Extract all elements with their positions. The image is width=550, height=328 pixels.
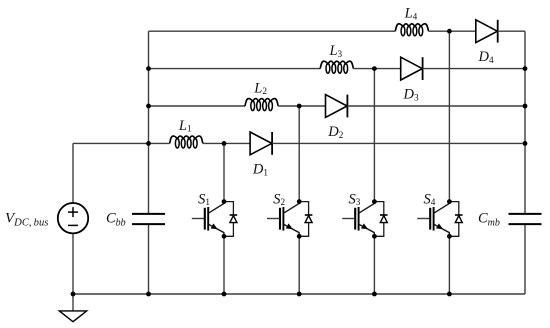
capacitor Cmb <box>509 213 542 215</box>
node collector <box>297 199 302 204</box>
wire antiparallel-diode branch <box>449 202 458 237</box>
node L2-D2-S2 <box>297 104 302 109</box>
wire L1 to D1 <box>203 142 250 144</box>
wire D1 to right rail <box>272 142 525 144</box>
antiparallel diode <box>455 214 463 216</box>
wire L2 to D2 <box>278 105 325 107</box>
node emitter <box>297 234 302 239</box>
node right rail row4 <box>523 141 528 146</box>
wire S2 lower leg <box>298 236 300 294</box>
wire emitter lead <box>208 224 224 236</box>
node emitter <box>372 234 377 239</box>
wire S1 lower leg <box>223 236 225 294</box>
node emitter <box>447 234 452 239</box>
node L4-D4-S4 <box>447 29 452 34</box>
inductor L4 <box>395 24 428 31</box>
diode D3 <box>401 57 423 80</box>
wire antiparallel-diode branch <box>299 202 308 237</box>
wire D4 to right rail <box>498 30 525 32</box>
node collector <box>447 199 452 204</box>
node emitter <box>222 234 227 239</box>
wire antiparallel-diode branch <box>224 202 233 237</box>
node L1-D1-S1 <box>222 141 227 146</box>
wire source top <box>72 143 74 202</box>
wire antiparallel-diode branch <box>374 202 383 237</box>
wire collector lead <box>359 202 375 214</box>
wire ground stem <box>72 294 74 311</box>
node bottom Cbb <box>146 292 151 297</box>
wire row L4 left <box>149 30 396 32</box>
wire collector lead <box>283 202 299 214</box>
antiparallel diode <box>230 214 238 216</box>
node collector <box>222 199 227 204</box>
inductor L2 <box>245 99 278 106</box>
inductor L3 <box>320 61 353 68</box>
gate bars <box>204 208 206 230</box>
node bottom S1 <box>222 292 227 297</box>
emitter arrow <box>361 223 368 229</box>
node bottom source <box>71 292 76 297</box>
inductor L1 <box>170 136 203 143</box>
wire S4 upper leg <box>448 31 450 201</box>
node left rail row2 <box>146 66 151 71</box>
wire S3 upper leg <box>373 69 375 202</box>
wire right rail <box>524 31 526 213</box>
capacitor Cbb <box>132 213 165 215</box>
antiparallel diode <box>305 214 313 216</box>
node right rail row3 <box>523 104 528 109</box>
wire L3 to D3 <box>353 68 400 70</box>
wire D2 to right rail <box>347 105 525 107</box>
emitter arrow <box>211 223 218 229</box>
voltage source VDC,bus <box>58 203 88 233</box>
wire gate lead <box>192 218 204 220</box>
wire D3 to right rail <box>423 68 525 70</box>
wire collector lead <box>434 202 450 214</box>
diode D2 <box>326 95 348 118</box>
gate bars <box>279 208 281 230</box>
node bottom S4 <box>447 292 452 297</box>
emitter arrow <box>436 223 443 229</box>
wire gate lead <box>267 218 279 220</box>
node bottom S3 <box>372 292 377 297</box>
wire gate lead <box>342 218 354 220</box>
wire source bottom <box>72 234 74 294</box>
wire emitter lead <box>434 224 450 236</box>
diode D4 <box>476 20 498 43</box>
wire row L2 left <box>149 105 246 107</box>
node L3-D3-S3 <box>372 66 377 71</box>
wire bottom rail <box>73 293 525 295</box>
gate bars <box>354 208 356 230</box>
node bottom S2 <box>297 292 302 297</box>
ground <box>59 311 86 322</box>
wire S2 upper leg <box>298 106 300 202</box>
wire left rail <box>148 31 150 213</box>
wire L4 to D4 <box>429 30 476 32</box>
wire emitter lead <box>283 224 299 236</box>
wire row L3 left <box>149 68 321 70</box>
wire S3 lower leg <box>373 236 375 294</box>
node left rail row3 <box>146 104 151 109</box>
wire emitter lead <box>359 224 375 236</box>
wire S4 lower leg <box>448 236 450 294</box>
wire gate lead <box>417 218 429 220</box>
wire S1 upper leg <box>223 143 225 201</box>
wire row L1 left <box>73 142 170 144</box>
node collector <box>372 199 377 204</box>
gate bars <box>429 208 431 230</box>
diode D1 <box>250 132 272 155</box>
emitter arrow <box>286 223 293 229</box>
wire collector lead <box>208 202 224 214</box>
antiparallel diode <box>380 214 388 216</box>
node left rail row4 <box>146 141 151 146</box>
node right rail row2 <box>523 66 528 71</box>
